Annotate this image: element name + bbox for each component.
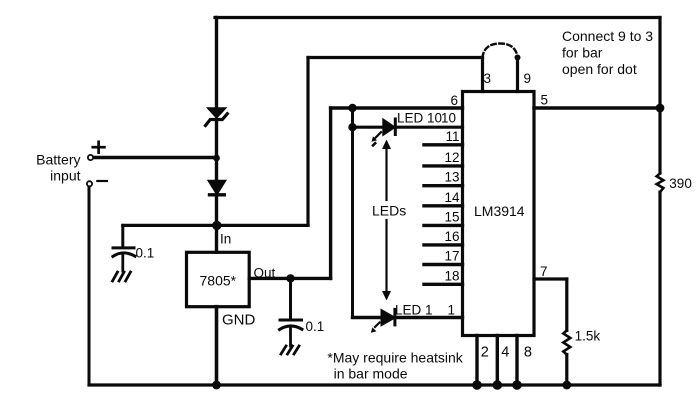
svg-text:0.1: 0.1 [136,246,155,261]
wire left rail [88,187,91,386]
wire 1.5k to bottom rail [565,355,568,386]
wire top rail [215,16,660,19]
node battery plus junction [213,155,220,162]
wire right rail lower [658,192,661,385]
pin 4 wire [496,336,499,386]
node Out junction [286,274,294,282]
LED 10 [372,119,396,145]
node pin4 bottom junction [493,380,503,390]
pin 3 stub [481,58,484,92]
pin 13 stub [424,184,463,187]
node GND bottom junction [212,381,221,390]
svg-text:LEDs: LEDs [372,203,406,219]
svg-text:GND: GND [222,312,256,329]
svg-text:input: input [50,168,80,184]
pin 9 stub [516,58,519,92]
wire Out riser vertical [329,108,332,278]
wire In node rail [123,224,308,227]
svg-text:4: 4 [501,345,509,361]
wire battery plus to vertical [93,156,217,160]
range arrow LEDs double-headed [382,140,391,301]
plus sign [93,142,105,153]
regulator U2 7805 box [187,252,250,306]
svg-text:12: 12 [444,150,459,165]
svg-text:9: 9 [524,71,532,86]
wire LED1 row [353,316,463,319]
node LED10 junction [348,123,356,131]
wire C1 to ground [121,255,124,271]
wire diode to In node [215,195,218,253]
zener diode D1 [206,109,228,126]
wire C2 to ground [289,328,292,346]
ground symbol C2 [281,346,299,354]
wire LED anode rail vertical [351,108,354,318]
wire 7805 Out to riser [249,277,330,280]
pin 2 wire [475,336,478,386]
pin 18 stub [424,283,463,286]
wire main vertical upper (top rail to zener) [215,18,218,109]
svg-text:Connect 9 to 3: Connect 9 to 3 [562,28,653,44]
svg-text:17: 17 [444,249,459,264]
svg-text:LED 1: LED 1 [395,303,433,318]
svg-text:In: In [220,232,231,247]
svg-text:5: 5 [541,93,549,108]
wire pin3 feed horizontal [308,56,483,59]
svg-text:2: 2 [481,345,489,361]
IC U1 LM3914 box [463,92,535,336]
svg-text:0.1: 0.1 [306,319,325,334]
svg-text:for bar: for bar [562,45,603,61]
wire 7805 GND down [215,307,219,385]
svg-text:Out: Out [254,266,276,281]
resistor R2 1.5k [563,330,570,354]
node 1.5k bottom junction [562,381,571,390]
svg-text:6: 6 [450,93,458,108]
pin 17 stub [424,263,463,266]
ground symbol C1 [113,272,131,281]
node pin2 bottom junction [472,380,482,390]
svg-text:11: 11 [445,129,459,144]
wire LED10 row [353,126,463,129]
svg-text:LM3914: LM3914 [474,203,525,219]
svg-text:15: 15 [444,209,459,224]
pin 14 stub [424,204,463,207]
svg-text:16: 16 [444,229,459,244]
battery plus terminal [88,155,93,160]
svg-text:10: 10 [441,111,456,126]
node pin9 top dot [515,55,521,61]
battery minus terminal [87,181,92,186]
capacitor C1 0.1 plates [113,248,135,257]
svg-text:7805*: 7805* [200,273,237,289]
svg-text:1: 1 [447,303,455,318]
svg-text:open for dot: open for dot [562,61,637,77]
capacitor C1 0.1 branch wire [121,225,124,246]
svg-text:13: 13 [444,170,459,185]
wire pin7 vertical to resistor [565,279,568,330]
svg-text:18: 18 [444,268,459,283]
svg-text:1.5k: 1.5k [575,329,601,344]
svg-text:LED 10: LED 10 [397,111,442,126]
wire zener to battery junction [215,120,218,181]
wire pin5 to right rail [534,106,660,109]
node pin5 right rail junction [656,104,665,113]
wire right rail upper [658,18,661,174]
pin 12 stub [424,164,463,167]
resistor R1 390 [657,173,664,192]
svg-text:3: 3 [484,71,492,86]
node In junction [212,221,221,230]
LED 1 [371,309,395,332]
svg-text:14: 14 [444,190,460,205]
node pin8 bottom junction [512,380,522,390]
wire vertical x308 (In node up to pin3 feed) [306,58,309,226]
minus sign [97,180,107,182]
wire pin6 horizontal [331,106,463,109]
node LED rail top junction [348,104,356,112]
capacitor C2 0.1 branch wire [289,278,292,318]
pin 15 stub [424,224,463,227]
wire bottom rail [89,383,660,386]
svg-text:8: 8 [524,345,532,361]
pin 16 stub [424,243,463,246]
svg-text:Battery: Battery [36,152,80,168]
pin 8 wire [515,336,518,386]
svg-text:390: 390 [669,176,692,191]
capacitor C2 0.1 plates [280,320,303,330]
svg-text:*May require heatsink: *May require heatsink [327,350,463,366]
svg-text:in bar mode: in bar mode [334,366,408,382]
wire pin7 horizontal [534,277,567,280]
svg-text:7: 7 [540,264,548,279]
diode D2 [210,181,225,195]
pin 11 stub [424,143,463,146]
dashed arc pin3 to pin9 [483,44,518,58]
